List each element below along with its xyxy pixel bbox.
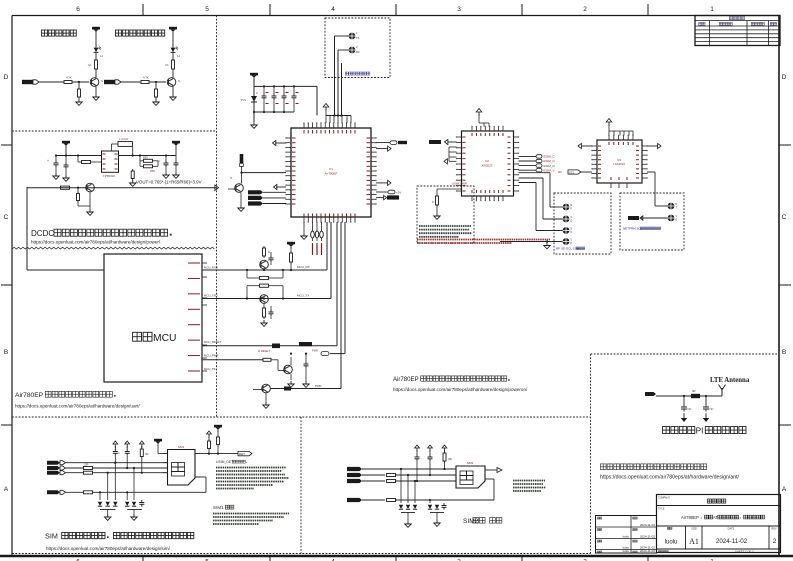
svg-text:PWK: PWK <box>312 349 319 353</box>
SIM2 card connector J2 <box>451 461 485 488</box>
svg-text:PWR: PWR <box>315 384 322 388</box>
power flag VBAT LED2 <box>169 27 177 45</box>
wire decoupling ground bus <box>253 111 294 113</box>
U1 bottom pins <box>303 214 355 223</box>
ground sim1 esd 2 <box>131 510 137 521</box>
svg-text:DET: DET <box>239 452 245 456</box>
ferrite bead FB1 <box>311 222 315 241</box>
base resistor R1b <box>38 76 89 84</box>
svg-text:Air780EP: Air780EP <box>15 392 44 399</box>
wire VBAT bus top <box>254 86 317 115</box>
sim2 pullup cap C81 <box>415 445 420 482</box>
svg-text:R65: R65 <box>143 156 148 160</box>
svg-text:D: D <box>4 74 9 81</box>
svg-text:R66: R66 <box>150 169 155 173</box>
svg-text:https://docs.openluat.com/air7: https://docs.openluat.com/air780eps/at/h… <box>600 475 740 481</box>
svg-text:1: 1 <box>710 6 714 13</box>
svg-text:SIM2: SIM2 <box>467 461 474 465</box>
sim2 esd diode D82 <box>406 474 410 509</box>
svg-text:R: R <box>230 176 232 180</box>
svg-text:COMPANY: COMPANY <box>658 497 670 500</box>
svg-text:I2C: I2C <box>558 170 562 174</box>
text PI matching note <box>663 427 747 436</box>
transistor Q5 status <box>228 173 243 205</box>
svg-text:VOUT=0.765* (1+R65/R66)=3.9V: VOUT=0.765* (1+R65/R66)=3.9V <box>136 180 202 185</box>
resistor R82 sim2 rst <box>387 480 457 483</box>
svg-text:MCU_TXD: MCU_TXD <box>204 294 218 298</box>
test point TP8 <box>666 215 678 222</box>
title block sheet strip <box>658 550 754 554</box>
green note text sim1 <box>216 468 289 489</box>
svg-text:SCL: SCL <box>569 170 575 174</box>
svg-text:1K: 1K <box>165 63 169 67</box>
svg-text:https://docs.openluat.com/air7: https://docs.openluat.com/air780eps/at/h… <box>31 240 161 245</box>
ground Q54 <box>263 402 269 408</box>
svg-text:U1: U1 <box>329 167 333 171</box>
wire sim1 esd bus 1 <box>100 509 115 511</box>
vertical net labels below beads <box>313 243 322 255</box>
ground feedback divider <box>130 180 136 186</box>
net label USIM2 CLK <box>347 473 385 477</box>
wire U2 to TP5 <box>519 183 563 231</box>
svg-text:C: C <box>4 214 9 221</box>
download debug port dashed box <box>325 18 390 78</box>
decoupling capacitor C52 <box>272 85 277 112</box>
sim1 pullup cap C72 <box>125 441 130 469</box>
wire VBAT to U1 left <box>240 172 286 174</box>
svg-text:MCU_PWR: MCU_PWR <box>204 354 218 358</box>
wire TP1 down to U1 <box>335 36 349 116</box>
decoupling capacitor C51 <box>256 85 266 112</box>
wire U2 to TP3 <box>519 173 563 207</box>
svg-text:+: + <box>47 159 49 163</box>
revision table header text <box>699 16 777 25</box>
wire Q60 emitter loop <box>78 192 90 210</box>
net label ANT <box>645 392 670 396</box>
capacitor C57 <box>304 353 309 369</box>
test point dashed box C <box>620 193 684 250</box>
svg-text:ESIM_V: ESIM_V <box>544 168 555 172</box>
output capacitor C64 <box>174 156 179 173</box>
svg-text:C: C <box>571 231 573 234</box>
resistor R56 <box>263 358 278 364</box>
title block signatures table <box>596 516 657 554</box>
ground C63 <box>163 172 169 178</box>
sim1 esd diode D73 <box>113 462 117 507</box>
ground C62 <box>63 175 69 181</box>
wire U2 to TP4 <box>519 178 563 219</box>
zone numbers bottom <box>76 556 714 561</box>
resistor R54 series <box>247 284 283 287</box>
ground Q5 <box>238 205 244 211</box>
svg-text:TX: TX <box>356 36 360 40</box>
svg-text:3: 3 <box>457 6 461 13</box>
svg-text:SIZE: SIZE <box>691 527 697 531</box>
U2 right pins <box>508 136 520 191</box>
wire sim1 det net <box>195 453 238 455</box>
net arrow U1 left 2 <box>274 184 287 189</box>
antenna symbol <box>719 385 726 397</box>
svg-text:D: D <box>782 74 787 81</box>
svg-text:MCU_RX: MCU_RX <box>297 265 310 269</box>
net arrow PWRKEY node <box>312 222 345 356</box>
feedback resistor R66 <box>140 165 158 173</box>
power flag DCDC input <box>57 141 102 156</box>
svg-text:2024-11-02: 2024-11-02 <box>640 523 655 527</box>
ground sim2 esd 2 <box>434 513 440 527</box>
svg-text:LTE Antenna: LTE Antenna <box>710 377 750 384</box>
text poweron guide heading <box>393 376 510 383</box>
net arrow VBAT to U2 <box>429 139 457 144</box>
U3 right pins <box>636 145 648 178</box>
U1 right pins <box>367 137 377 204</box>
U3 bottom pins <box>610 177 627 188</box>
svg-text:NC: NC <box>688 407 692 411</box>
svg-text:MCU_RXD: MCU_RXD <box>204 265 218 269</box>
test point TP7 <box>666 203 678 210</box>
resistor R2a <box>165 58 174 71</box>
wire MCU powerkey line <box>202 359 263 361</box>
green note text sim2 <box>513 481 546 492</box>
wire sim2 vdd loop <box>485 479 494 500</box>
svg-text:SIM: SIM <box>45 532 58 541</box>
sim2 esd diode D85 <box>435 500 439 509</box>
svg-text:RF GD SCL SDA: RF GD SCL SDA <box>556 247 579 251</box>
net label RELAD blob <box>376 195 399 199</box>
svg-text:5: 5 <box>205 6 209 13</box>
sim1 det resistor R75 <box>207 431 212 454</box>
wire DCDC output row <box>27 185 219 191</box>
net label SIM1 DET <box>238 451 252 456</box>
test point TP3 <box>561 204 573 211</box>
svg-text:4.7K: 4.7K <box>66 76 72 80</box>
svg-text:AT: AT <box>713 515 718 520</box>
test point TP1 main uart <box>347 31 360 40</box>
matching cap C91 <box>681 395 692 418</box>
svg-text:luolu: luolu <box>623 535 630 539</box>
dashed box usim pullup note <box>417 186 474 243</box>
matching inductor L9 <box>656 389 722 398</box>
ground level shifter <box>261 319 267 326</box>
net label VBUS arrow <box>628 216 667 220</box>
net label LED1 input <box>22 80 39 84</box>
net label USIM2 RST <box>347 479 385 483</box>
net label LED2 input <box>104 80 121 84</box>
svg-text:ESIM_D: ESIM_D <box>544 159 556 163</box>
host MCU block U5 <box>104 254 222 382</box>
resistor R52 <box>263 246 271 258</box>
capacitor C62 <box>64 154 69 175</box>
feedback lower resistor R67 <box>131 156 134 181</box>
wire sim2 right power <box>485 468 502 473</box>
test point TP4 <box>561 216 573 223</box>
net label USIM2 DATA <box>347 467 456 471</box>
sim1 esd diode D72 <box>106 472 110 507</box>
pulldown resistor R1c <box>78 81 81 99</box>
svg-text:4.7K: 4.7K <box>143 76 149 80</box>
sim2 esd diode D84 <box>428 499 432 509</box>
diode D52 reset <box>258 344 280 354</box>
svg-text:C: C <box>158 159 160 163</box>
text sim guide url <box>46 546 171 551</box>
zone letters left <box>1 74 12 493</box>
wire DCDC out to MCU <box>27 187 104 270</box>
sim1 pullup res R74 <box>139 441 149 474</box>
svg-text:0R: 0R <box>692 389 696 393</box>
power arrow U2 <box>476 109 489 127</box>
net label U3 left SCL <box>558 170 592 175</box>
wire LED1 collector <box>95 71 97 78</box>
test point TP2 main uart <box>347 45 360 54</box>
resistor R73 sim vdd <box>84 491 207 494</box>
svg-text:REV: REV <box>771 527 777 531</box>
svg-text:2024-11-02: 2024-11-02 <box>640 535 655 539</box>
text DCDC design guide url <box>31 240 161 245</box>
U2 right net ovals <box>519 155 556 173</box>
transistor Q54 <box>253 222 341 402</box>
title block company row <box>658 497 726 504</box>
sim1 esd diode D75 <box>132 467 136 506</box>
ground TP box <box>544 240 550 249</box>
text poweron guide url <box>393 387 528 392</box>
wire U3 to TP box C <box>647 172 667 206</box>
svg-text:Air780EP: Air780EP <box>681 515 699 520</box>
U2 bottom pins <box>471 190 503 201</box>
svg-text:https://docs.openluat.com/air7: https://docs.openluat.com/air780eps/at/h… <box>15 404 140 409</box>
svg-text:L1: L1 <box>100 54 104 58</box>
text antenna knowledge url <box>600 475 740 481</box>
net label USIM RST <box>47 471 84 475</box>
ground C64 <box>173 172 179 178</box>
U2 left pin tie bus <box>444 147 457 164</box>
zone letters right <box>779 74 791 493</box>
net arrow right 1 <box>376 146 391 151</box>
resistor R63 base <box>77 188 80 206</box>
net label into box A <box>452 182 467 186</box>
net label USIM VDD <box>47 490 84 494</box>
svg-text:A: A <box>4 486 9 493</box>
sim1 esd diode D71 <box>98 491 102 506</box>
text USIM_DET note heading <box>216 460 247 464</box>
resistor R1a <box>88 58 97 71</box>
svg-text:LNA2023: LNA2023 <box>613 162 625 166</box>
zone ticks top <box>143 4 648 16</box>
svg-text:MCU_PK: MCU_PK <box>204 367 216 371</box>
resistor R55 below Q52 <box>263 303 266 319</box>
net label USIM2 VDD <box>347 498 385 502</box>
svg-text:R: R <box>432 200 434 204</box>
net label USIM blob 1 <box>248 190 286 194</box>
svg-text:Air780EP: Air780EP <box>393 377 419 383</box>
svg-text:NETPRM SCL: NETPRM SCL <box>623 227 643 231</box>
power flag SIM1 VDD <box>154 439 168 454</box>
svg-text:D RESET: D RESET <box>258 349 270 353</box>
svg-text:SIM1: SIM1 <box>213 505 224 510</box>
net label USIM CLK <box>47 466 84 470</box>
U1 left pins <box>285 137 295 204</box>
green note text box A <box>419 226 472 237</box>
ground below Q1 <box>93 94 99 100</box>
resistor R71 sim clk <box>84 464 168 470</box>
text MCU uart guide url <box>15 404 140 409</box>
svg-text:RX: RX <box>356 50 360 54</box>
revision history table <box>695 16 780 46</box>
svg-text:SIM2: SIM2 <box>463 518 479 525</box>
wire RESET line <box>202 222 337 346</box>
decoupling capacitor C53 <box>282 85 287 112</box>
transistor Q2 <box>167 78 180 94</box>
svg-text:DCDC: DCDC <box>31 229 54 238</box>
sim2 pullup res R84 <box>442 445 452 470</box>
U3 top pins <box>608 135 633 145</box>
base resistor R2b <box>120 76 166 84</box>
svg-text:PI: PI <box>696 427 704 436</box>
ground matching cap C91 <box>681 418 687 422</box>
svg-text:MCU_TX: MCU_TX <box>297 294 309 298</box>
main module U1 Air780EP <box>291 128 371 217</box>
text TP box B label <box>556 247 585 251</box>
ground main VBAT <box>251 122 257 128</box>
text VOUT formula <box>136 180 202 185</box>
text TP box C label <box>623 227 661 231</box>
resistor R72 sim rst <box>84 471 168 474</box>
sim2 esd diode D81 <box>399 468 403 509</box>
net arrow U1 left 1 <box>273 140 287 145</box>
green note text sim1 channel <box>213 514 289 525</box>
output capacitor C63 <box>158 154 168 172</box>
svg-text:Air780EP: Air780EP <box>325 172 338 176</box>
net arrow U3 left <box>578 143 592 148</box>
sim1 esd cap C73 <box>139 473 144 507</box>
text MCU uart guide heading <box>15 391 116 399</box>
power arrow U3 <box>606 119 633 136</box>
matching cap C92 <box>703 395 714 418</box>
svg-text:+5V: +5V <box>396 190 401 194</box>
resistor R83 sim2 vdd <box>387 499 495 502</box>
ground Q53 and C57 <box>288 368 309 387</box>
wire DCDC switch node <box>119 154 176 156</box>
svg-text:https://docs.openluat.com/air7: https://docs.openluat.com/air780eps/at/h… <box>46 546 171 551</box>
ground box A <box>434 213 440 219</box>
sim1 pullup cap C71 <box>113 441 120 464</box>
TVS diode D5 <box>241 96 257 102</box>
ground sim1 esd 1 <box>105 510 111 521</box>
net label VBUS right <box>376 141 407 145</box>
svg-text:C: C <box>118 452 120 455</box>
power flag DCDC output <box>172 141 180 156</box>
net label VBAT vertical <box>240 154 244 173</box>
resistor R60 in box A <box>432 189 461 213</box>
sim2 esd cap C83 <box>442 500 447 510</box>
svg-text:NC: NC <box>710 407 714 411</box>
ground U1 bottom <box>301 222 307 239</box>
ground pulldown 2 <box>153 99 159 105</box>
svg-text:2024-11-02: 2024-11-02 <box>716 538 748 545</box>
svg-text:L 4.7uH: L 4.7uH <box>119 137 128 141</box>
zone numbers top <box>76 6 714 13</box>
wire TP2 down to U1 <box>338 50 349 116</box>
svg-text:DATE: DATE <box>728 527 735 531</box>
svg-text:ESIM_C: ESIM_C <box>544 155 556 159</box>
SIM1 card connector J1 <box>163 445 201 485</box>
svg-text:luolu: luolu <box>665 540 678 546</box>
transistor Q1 <box>90 78 103 94</box>
svg-text:R: R <box>268 250 270 254</box>
net label RESET <box>299 342 312 346</box>
svg-text:TPS5430: TPS5430 <box>103 174 115 178</box>
svg-text:S: S <box>178 79 180 83</box>
title block title row <box>658 508 765 520</box>
svg-text:B: B <box>782 349 786 356</box>
svg-text:2: 2 <box>773 538 777 545</box>
text DCDC design guide heading <box>31 229 172 238</box>
peripheral IC U3 <box>597 140 642 183</box>
resistor R53 series <box>260 276 269 279</box>
test point TP6 <box>561 238 573 245</box>
transistor Q51 <box>260 250 269 271</box>
ground C61 <box>53 173 59 179</box>
svg-text:C: C <box>782 214 787 221</box>
sim2 esd diode D83 <box>413 480 417 509</box>
ground pulldown 1 <box>76 99 82 105</box>
wire sim2 esd bus 1 <box>401 512 415 514</box>
svg-text:22R: 22R <box>84 464 89 467</box>
ferrite bead FB4 <box>284 384 322 391</box>
pulldown resistor R2c <box>155 81 158 99</box>
wire sim1 esd bus 2 <box>127 509 142 511</box>
wire MCU TX line <box>202 222 331 300</box>
svg-text:D: D <box>571 242 573 245</box>
wire debug gnd down to U1 <box>341 63 343 116</box>
resistor R51 pullup <box>290 251 293 271</box>
text debug port label <box>345 72 370 75</box>
ground matching cap C92 <box>703 418 709 422</box>
text network indicator label <box>41 30 164 36</box>
U2 top pins <box>471 126 503 136</box>
sim1 det resistor R76 <box>214 425 222 454</box>
text LTE Antenna <box>710 377 750 384</box>
U3 left pins <box>591 145 601 178</box>
svg-text:USIM_DET: USIM_DET <box>216 460 233 464</box>
test point dashed box B <box>554 193 611 254</box>
svg-text:2024-11-02: 2024-11-02 <box>640 549 655 553</box>
sim2 pullup cap C82 <box>428 445 433 476</box>
inductor L6 <box>112 137 133 156</box>
U1 top pins <box>303 122 355 133</box>
resistor R62 series output <box>61 186 70 189</box>
svg-text:A: A <box>782 486 787 493</box>
svg-text:B: B <box>4 349 8 356</box>
resistor R81 sim2 clk <box>387 474 457 477</box>
test point TP5 <box>561 227 573 234</box>
title block outline <box>657 495 781 553</box>
feedback resistor R65 <box>139 154 158 166</box>
ground below Q2 <box>170 94 176 100</box>
DCDC converter U6 <box>102 151 119 178</box>
net label right oval2 <box>376 190 401 194</box>
svg-text:ESIM_R: ESIM_R <box>544 164 556 168</box>
LED D2 <box>171 44 181 58</box>
title block info row <box>665 527 777 547</box>
wire sim2 esd bus 2 <box>430 512 444 514</box>
text antenna knowledge heading <box>600 464 706 470</box>
resistor R61 enable <box>77 154 102 163</box>
red warning text below box A <box>417 240 550 244</box>
wire SIM1 detect loop <box>195 477 206 492</box>
capacitor C55 <box>269 252 274 265</box>
peripheral IC U2 <box>462 131 514 196</box>
wire LED2 collector <box>172 71 174 78</box>
